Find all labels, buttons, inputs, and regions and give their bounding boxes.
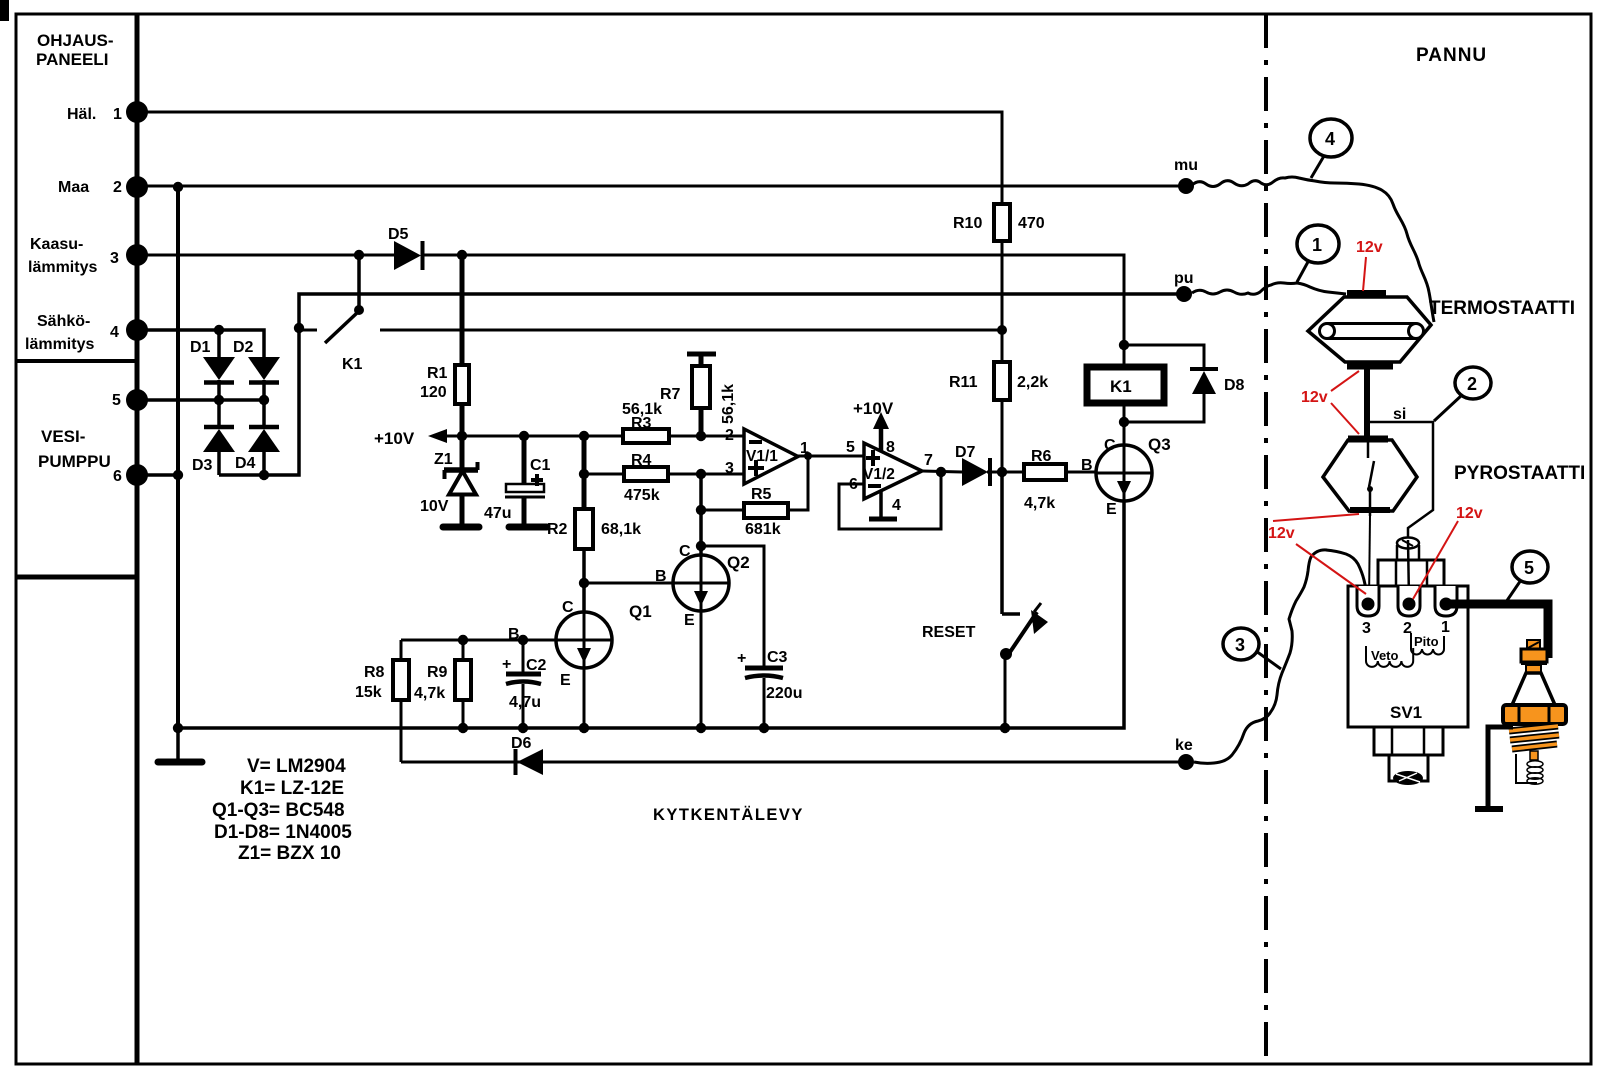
node C3 tap (696, 541, 706, 551)
node relay bottom (1119, 417, 1129, 427)
wire Q2 emitter (700, 611, 703, 728)
wire terminal6 stub (137, 473, 178, 477)
svg-text:Maa: Maa (58, 179, 89, 196)
svg-text:D7: D7 (955, 444, 976, 461)
node rail C2 (518, 723, 528, 733)
svg-text:C1: C1 (530, 457, 551, 474)
svg-text:R4: R4 (631, 452, 652, 469)
wire thermostat to pyrostat thick stem (1364, 368, 1370, 438)
svg-text:4: 4 (110, 324, 119, 341)
svg-text:E: E (560, 672, 571, 689)
transistor Q3 (1081, 435, 1171, 518)
svg-text:lämmitys: lämmitys (28, 259, 97, 276)
node D4 bottom (259, 470, 269, 480)
transistor Q2 (655, 543, 750, 629)
node T3/R1 junction (457, 250, 467, 260)
wire V1/2 feedback loop pin6 (839, 472, 941, 529)
svg-text:220u: 220u (766, 685, 802, 702)
node bridge mid left (214, 395, 224, 405)
diode D3 (192, 427, 235, 474)
svg-text:pu: pu (1174, 270, 1194, 287)
svg-text:1: 1 (113, 106, 122, 123)
wire ke squiggle to SV1 pin3 (1194, 550, 1327, 763)
wire R1 column top (460, 255, 465, 365)
wire C3 branch (701, 546, 764, 666)
svg-text:3: 3 (110, 250, 119, 267)
svg-text:D8: D8 (1224, 377, 1245, 394)
label VESI-PUMPPU (38, 427, 111, 471)
red 12v annotation top (1356, 239, 1383, 291)
svg-text:D2: D2 (233, 339, 254, 356)
svg-text:+10V: +10V (853, 399, 894, 418)
solenoid valve SV1 body (1348, 586, 1468, 727)
svg-text:7: 7 (924, 452, 933, 469)
svg-text:+: + (737, 650, 746, 667)
svg-text:Q1-Q3= BC548: Q1-Q3= BC548 (212, 800, 345, 821)
SV1 Veto coil (1366, 646, 1413, 667)
node R7/pin2 (696, 431, 706, 441)
wire terminal4 to bridge top (137, 330, 264, 358)
node rail Q1e (579, 723, 589, 733)
SV1 pin2 hole (1398, 586, 1420, 637)
ground under C1 (509, 524, 547, 531)
svg-text:R3: R3 (631, 415, 652, 432)
svg-text:R6: R6 (1031, 448, 1052, 465)
wire relay to Q3 collector (1123, 403, 1126, 445)
label OHJAUS-PANEELI (36, 31, 114, 69)
wire R1 bottom (460, 404, 465, 436)
main ground symbol (158, 728, 202, 762)
svg-text:4,7k: 4,7k (414, 685, 445, 702)
svg-text:ke: ke (1175, 737, 1193, 754)
svg-text:Q2: Q2 (727, 553, 750, 572)
wire terminal3 line D5 to relay corner (422, 255, 1124, 367)
terminal 5 (112, 389, 148, 411)
resistor R7 (660, 354, 737, 436)
node output/loop (936, 467, 946, 477)
svg-text:si: si (1393, 406, 1406, 423)
node pu (1174, 270, 1194, 302)
svg-text:RESET: RESET (922, 624, 976, 641)
node rail ground (173, 723, 183, 733)
svg-text:V1/2: V1/2 (863, 466, 895, 483)
svg-text:PYROSTAATTI: PYROSTAATTI (1454, 463, 1585, 484)
zener Z1 (420, 436, 478, 524)
svg-text:+: + (502, 656, 511, 673)
svg-text:K1= LZ-12E: K1= LZ-12E (240, 778, 344, 799)
resistor R2 (547, 509, 641, 549)
capacitor C2 (502, 640, 547, 728)
terminal 3 Kaasu-lammitys (28, 236, 148, 276)
svg-text:K1: K1 (1110, 377, 1132, 396)
terminal 6 (113, 464, 148, 486)
node rail Q2e (696, 723, 706, 733)
legend text (212, 756, 352, 864)
svg-text:R8: R8 (364, 664, 385, 681)
ground at V1/2 pin4 (869, 490, 897, 519)
node R9 top (458, 635, 468, 645)
wire SV1 pin1 thick feed (1450, 604, 1548, 658)
wire K1 to R10/R11 node (380, 329, 1002, 332)
svg-text:V= LM2904: V= LM2904 (247, 756, 346, 777)
svg-text:B: B (1081, 457, 1093, 474)
svg-text:KYTKENTÄLEVY: KYTKENTÄLEVY (653, 806, 804, 824)
pyrostat PYROSTAATTI (1323, 439, 1585, 516)
thermostat TERMOSTAATTI (1308, 294, 1575, 366)
svg-text:SV1: SV1 (1390, 703, 1422, 722)
SV1 bottom stub (1389, 755, 1428, 785)
svg-text:12v: 12v (1268, 525, 1295, 542)
svg-text:1: 1 (800, 440, 809, 457)
svg-text:R7: R7 (660, 386, 681, 403)
node T3/K1 junction (354, 250, 364, 260)
svg-text:D3: D3 (192, 457, 213, 474)
wire ke tail into pin3 (1326, 550, 1368, 602)
node Maa rail junction (173, 182, 183, 192)
red 12v annotation right (1413, 505, 1483, 599)
+10V rail with arrow (374, 429, 623, 448)
diode D8 (1124, 345, 1245, 422)
diode D2 (233, 339, 280, 383)
svg-text:1: 1 (1441, 619, 1450, 636)
svg-text:lämmitys: lämmitys (25, 336, 94, 353)
wire V1/1 output to V1/2 (798, 455, 864, 458)
node R4 left (579, 469, 589, 479)
svg-text:D5: D5 (388, 226, 409, 243)
node C1 top (519, 431, 529, 441)
node Q2 base tap (579, 578, 589, 588)
resistor R4 (584, 452, 744, 504)
relay K1 (1087, 367, 1164, 403)
svg-text:2: 2 (113, 179, 122, 196)
resistor R11 (949, 330, 1048, 472)
svg-text:475k: 475k (624, 487, 660, 504)
resistor R6 (1002, 448, 1096, 512)
svg-text:681k: 681k (745, 521, 781, 538)
svg-text:D4: D4 (235, 455, 256, 472)
svg-text:2,2k: 2,2k (1017, 374, 1048, 391)
svg-text:B: B (655, 568, 667, 585)
svg-text:470: 470 (1018, 215, 1045, 232)
svg-text:C3: C3 (767, 649, 788, 666)
bottom divider of VESI-PUMPPU box (16, 575, 137, 580)
diode D5 (388, 226, 423, 270)
svg-text:4,7k: 4,7k (1024, 495, 1055, 512)
diode D6 (511, 735, 543, 775)
node K1 contact tap (294, 323, 304, 333)
resistor R1 (420, 365, 469, 404)
SV1 Pito coil (1411, 633, 1444, 655)
corner scan mark (0, 0, 9, 21)
svg-text:E: E (1106, 501, 1117, 518)
ground under Z1 (443, 524, 479, 531)
wire Q1 collector from R2 (583, 583, 586, 612)
svg-text:R10: R10 (953, 215, 982, 232)
diode D4 (235, 427, 280, 472)
svg-text:R5: R5 (751, 486, 772, 503)
node R5 tap (696, 505, 706, 515)
wire D2-D4 column middle (262, 380, 266, 427)
node bridge mid right (259, 395, 269, 405)
svg-text:15k: 15k (355, 684, 382, 701)
wire terminal5 bridge middle row (137, 398, 264, 402)
SV1 top stub with threads (1397, 538, 1419, 561)
svg-text:Pito: Pito (1414, 634, 1439, 649)
svg-text:Veto: Veto (1371, 648, 1399, 663)
node rail C3 (759, 723, 769, 733)
svg-text:C: C (562, 599, 574, 616)
bottom rail (178, 501, 1124, 728)
svg-text:3: 3 (1362, 620, 1371, 637)
svg-text:D6: D6 (511, 735, 532, 752)
svg-text:2: 2 (725, 427, 734, 444)
svg-text:47u: 47u (484, 505, 512, 522)
svg-text:4,7u: 4,7u (509, 694, 541, 711)
svg-text:C: C (679, 543, 691, 560)
wire pyrostat to SV1 pin3 (1369, 516, 1370, 601)
glow plug (1503, 640, 1566, 784)
wire D6 row (401, 761, 1186, 764)
svg-text:8: 8 (886, 439, 895, 456)
svg-text:10V: 10V (420, 498, 449, 515)
wire D4 column lower (262, 452, 266, 475)
svg-text:VESI-: VESI- (41, 427, 85, 446)
wire terminal2 to mu (137, 185, 1186, 188)
wire Q1 emitter (583, 668, 586, 728)
svg-text:2: 2 (1467, 374, 1477, 394)
svg-text:C2: C2 (526, 657, 547, 674)
wire terminal3 line left of D5 (137, 254, 395, 257)
svg-text:PUMPPU: PUMPPU (38, 452, 111, 471)
svg-text:TERMOSTAATTI: TERMOSTAATTI (1429, 298, 1575, 319)
op-amp V1/1 (725, 427, 809, 484)
svg-text:+10V: +10V (374, 429, 415, 448)
wire mu squiggle to thermostat (1192, 177, 1434, 322)
svg-text:Q3: Q3 (1148, 435, 1171, 454)
node C2 top (518, 635, 528, 645)
wire R2 column upper (582, 436, 587, 509)
svg-text:3: 3 (725, 460, 734, 477)
svg-text:C: C (1104, 437, 1116, 454)
capacitor C3 (737, 649, 802, 728)
svg-text:R9: R9 (427, 664, 448, 681)
node R1/Z1 (457, 431, 467, 441)
capacitor C1 (484, 436, 551, 524)
svg-text:mu: mu (1174, 157, 1198, 174)
wire terminal1 to R10 corner (137, 112, 1002, 204)
svg-text:Häl.: Häl. (67, 106, 96, 123)
red 12v annotation middle (1301, 371, 1359, 434)
diode D1 (190, 339, 235, 383)
node R5 feedback (804, 452, 812, 460)
node rail RESET (1000, 723, 1010, 733)
svg-text:PANNU: PANNU (1416, 45, 1487, 66)
terminal 2 Maa (58, 176, 148, 198)
svg-text:OHJAUS-: OHJAUS- (37, 31, 114, 50)
+10V arrow at V1/2 pin8 (853, 399, 894, 451)
svg-text:4: 4 (1325, 129, 1335, 149)
resistor R9 (414, 640, 471, 728)
transistor Q1 (508, 599, 652, 689)
wire Q1 base row (401, 639, 556, 642)
wire bridge bottom to pu riser (219, 294, 1184, 475)
resistor R10 (953, 204, 1045, 330)
circled ref 4 (1310, 119, 1352, 178)
SV1 top nut (1378, 560, 1444, 586)
switch RESET (922, 472, 1048, 728)
svg-text:12v: 12v (1456, 505, 1483, 522)
wire D1-D3 column middle (217, 380, 221, 427)
svg-text:4: 4 (892, 497, 901, 514)
wire D1 column upper (217, 330, 221, 358)
node D7/R11/RESET (997, 467, 1007, 477)
circled ref 3 (1223, 628, 1281, 669)
wire R2 column lower (582, 549, 586, 612)
svg-text:R2: R2 (547, 521, 568, 538)
svg-text:56,1k: 56,1k (720, 384, 737, 424)
SV1 pin3 hole (1357, 586, 1379, 637)
node mu (1174, 157, 1198, 194)
wire D3 column lower (217, 452, 221, 475)
node R4/pin3 (696, 469, 706, 479)
node R2/R3 (579, 431, 589, 441)
SV1 pin1 hole (1435, 586, 1457, 636)
dashed boundary line (kytkentalevy / pannu) (1264, 14, 1268, 1064)
node ke (1175, 737, 1194, 770)
control panel column line (135, 14, 140, 1064)
svg-text:120: 120 (420, 384, 447, 401)
svg-text:5: 5 (846, 439, 855, 456)
circled ref 1 (1297, 225, 1339, 282)
svg-text:D1: D1 (190, 339, 211, 356)
wire si lower into pin2 (1408, 540, 1409, 601)
svg-text:R1: R1 (427, 365, 448, 382)
svg-text:V1/1: V1/1 (746, 448, 778, 465)
terminal 4 Sahko-lammitys (25, 313, 148, 353)
circled ref 5 (1506, 551, 1548, 602)
svg-text:D1-D8= 1N4005: D1-D8= 1N4005 (214, 822, 352, 843)
wire pu squiggle to thermostat (1192, 283, 1346, 295)
svg-text:12v: 12v (1301, 389, 1328, 406)
node T6 rail junction (173, 470, 183, 480)
node rail R9 (458, 723, 468, 733)
SV1 bottom nut (1374, 727, 1443, 755)
svg-text:68,1k: 68,1k (601, 521, 641, 538)
resistor R3 (584, 401, 744, 443)
op-amp V1/2 (846, 439, 933, 514)
wire Q2 base (584, 582, 673, 585)
svg-text:Z1: Z1 (434, 451, 453, 468)
svg-text:Z1= BZX 10: Z1= BZX 10 (238, 843, 341, 864)
node R10/R11/K1line (997, 325, 1007, 335)
terminal 1 Hal. (67, 101, 148, 123)
ground at glow plug (1475, 727, 1513, 809)
node relay top (1119, 340, 1129, 350)
svg-text:6: 6 (113, 468, 122, 485)
svg-text:5: 5 (112, 392, 121, 409)
diode D7 (955, 444, 1002, 486)
svg-text:PANEELI: PANEELI (36, 50, 108, 69)
svg-text:Q1: Q1 (629, 602, 652, 621)
red 12v annotation lower left (1268, 514, 1366, 594)
svg-text:R11: R11 (949, 374, 978, 391)
svg-text:Sähkö-: Sähkö- (37, 313, 90, 330)
wire V1/2 output (922, 471, 962, 472)
resistor R5 (701, 456, 808, 538)
switch K1 (299, 255, 364, 373)
divider between OHJAUS-PANEELI and VESI-PUMPPU (16, 359, 137, 363)
circled ref 2 (1434, 367, 1491, 421)
wire pin3 column down to Q2 (699, 474, 703, 555)
svg-text:12v: 12v (1356, 239, 1383, 256)
svg-text:Kaasu-: Kaasu- (30, 236, 83, 253)
svg-text:3: 3 (1235, 635, 1245, 655)
svg-text:K1: K1 (342, 356, 363, 373)
svg-text:1: 1 (1312, 235, 1322, 255)
node D1 top junction (214, 325, 224, 335)
wire si branch to SV1 pin2 (1367, 406, 1433, 545)
svg-text:5: 5 (1524, 558, 1534, 578)
resistor R8 (355, 640, 409, 762)
ground rail vertical from Maa (176, 187, 180, 728)
svg-text:E: E (684, 612, 695, 629)
